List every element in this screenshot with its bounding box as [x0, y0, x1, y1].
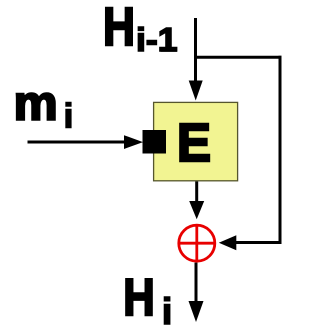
svg-text:i: i [64, 98, 73, 136]
svg-text:E: E [177, 113, 211, 173]
svg-text:H: H [103, 0, 135, 57]
svg-text:i-1: i-1 [136, 21, 178, 58]
svg-text:m: m [14, 77, 58, 131]
svg-text:H: H [123, 268, 155, 326]
svg-text:i: i [162, 290, 172, 332]
